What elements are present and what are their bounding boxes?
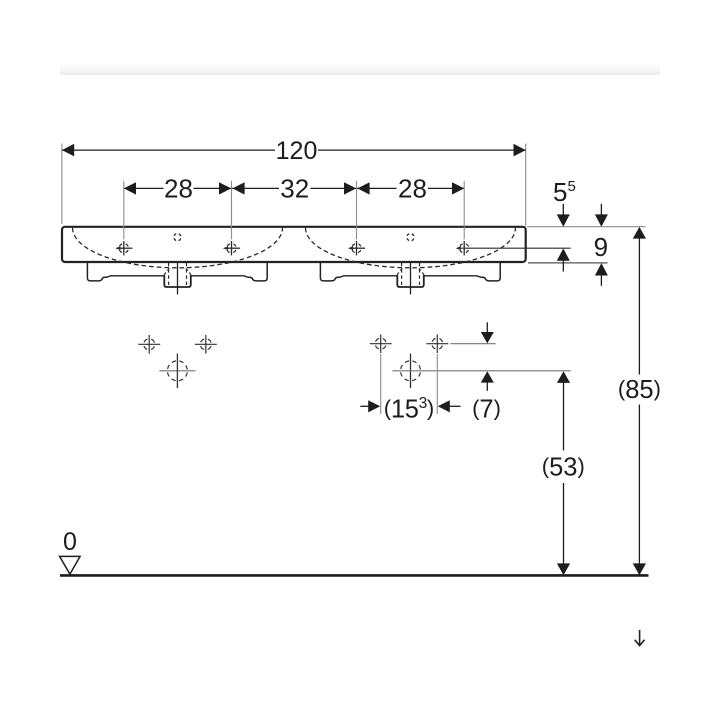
left basin right leg	[243, 262, 268, 281]
left basin ledge right segment	[191, 275, 243, 277]
small crosshair A (left basin left)	[138, 335, 160, 354]
arrowhead 120 left	[62, 144, 74, 157]
right drain dashed verticals	[401, 263, 403, 285]
right drain box	[397, 275, 424, 287]
dim (15.3) right arrow	[438, 400, 450, 412]
extension lines of faucet holes	[124, 181, 464, 240]
left basin ledge left segment	[112, 275, 164, 277]
reference line small-hole row (7 top)	[451, 343, 496, 345]
svg-text:28: 28	[398, 173, 427, 203]
dimension line 28 left	[124, 187, 164, 189]
overflow hole right	[407, 234, 414, 241]
right basin ledge left segment	[345, 275, 397, 277]
bowl hidden outline right	[306, 228, 516, 268]
right drain dashed diagonals	[397, 268, 403, 275]
reference line slab top extended	[527, 226, 646, 228]
arrowhead (85) top	[633, 227, 646, 239]
dim (7) upper arrow	[486, 322, 488, 333]
dimension line 120	[62, 149, 526, 151]
dim 5.5 upper arrow	[562, 204, 564, 215]
dim 9 upper arrow	[600, 204, 602, 215]
faucet hole marker 4 with reference arm to 5.5 dim	[459, 241, 571, 255]
extension line hole3 (x=356.5)	[356, 181, 358, 240]
small crosshair B (left basin right)	[195, 335, 217, 354]
right basin left leg	[320, 262, 345, 281]
left basin centerline	[177, 262, 179, 294]
slab outline	[62, 227, 526, 262]
extension line right (x=525.7)	[525, 144, 527, 227]
right basin centerline	[410, 262, 412, 294]
svg-text:(85): (85)	[618, 376, 661, 404]
svg-text:(7): (7)	[472, 395, 501, 423]
dim 9 lower arrow	[595, 263, 608, 275]
reference line slab bottom extended	[528, 262, 608, 264]
faucet hole marker 2	[226, 241, 240, 255]
right basin ledge right segment	[424, 275, 476, 277]
right basin right leg	[476, 262, 501, 281]
arrowhead (85) bottom	[633, 563, 646, 575]
svg-text:120: 120	[276, 137, 318, 165]
svg-text:28: 28	[164, 173, 193, 203]
arrowhead 28R right	[452, 182, 464, 194]
dim (7) lower arrow	[481, 371, 494, 382]
small crosshair D (right basin right)	[426, 334, 448, 353]
arrowhead (53) top	[557, 371, 570, 383]
extension line hole4 (x=464.2)	[463, 181, 465, 240]
svg-text:(153): (153)	[384, 395, 434, 423]
extension line left (x=62)	[61, 144, 63, 225]
left basin left leg	[87, 262, 112, 281]
scroll-down arrow icon	[635, 630, 645, 646]
arrowhead (53) bottom	[557, 563, 570, 575]
dimension line 28 right	[357, 187, 397, 189]
bowl hidden outline left	[73, 228, 283, 268]
dim 5.5 lower arrow	[557, 248, 570, 260]
faucet hole marker 1	[118, 241, 132, 255]
faucet hole marker 3	[351, 241, 365, 255]
large drain circle right	[401, 354, 421, 389]
arrowhead 28L left	[124, 182, 136, 194]
left drain box	[164, 275, 191, 287]
overflow hole left	[174, 234, 181, 241]
extension lines for (15.3)	[381, 354, 438, 414]
datum triangle	[60, 556, 81, 574]
extension line hole1 (x=123.8)	[123, 181, 125, 240]
svg-text:9: 9	[594, 232, 608, 262]
svg-text:0: 0	[63, 528, 77, 556]
arrowheads pair at x=231.5	[219, 182, 231, 194]
small crosshair C (right basin left)	[370, 334, 392, 353]
svg-text:(53): (53)	[542, 453, 585, 481]
left drain dashed verticals	[168, 263, 170, 285]
extension line hole2 (x=231.5)	[231, 181, 233, 240]
dim (15.3) left arrow	[360, 405, 370, 407]
left drain dashed diagonals	[164, 268, 170, 275]
large drain circle left	[159, 354, 195, 389]
svg-text:32: 32	[280, 173, 309, 203]
arrowhead 120 right	[514, 144, 526, 157]
arrowheads pair at x=356.5	[344, 182, 356, 194]
reference line drain row extended	[392, 370, 570, 372]
dimension line 32	[232, 187, 280, 189]
